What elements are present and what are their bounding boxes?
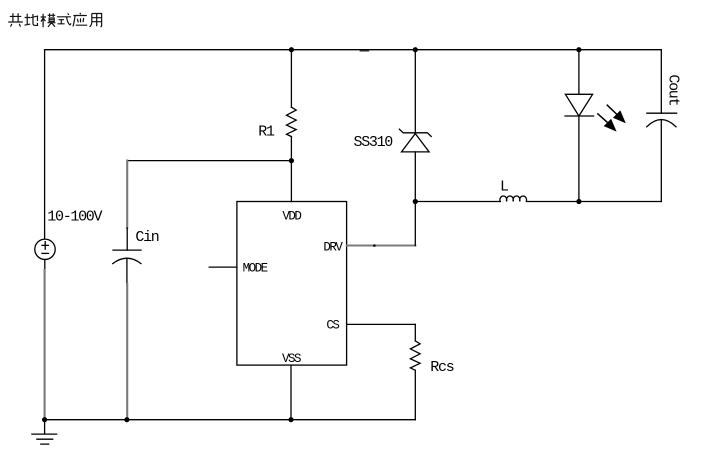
wire left rail lower (gray)	[44, 270, 46, 420]
node switch	[413, 199, 418, 204]
arrowhead 1	[613, 110, 626, 123]
voltage source bottom pin	[44, 260, 46, 270]
node ground left	[42, 417, 47, 422]
svg-text:MODE: MODE	[243, 261, 268, 275]
node LED top	[576, 47, 581, 52]
wire LED branch top	[578, 50, 580, 95]
node R1 top	[289, 47, 294, 52]
wire SS310 branch top	[414, 50, 416, 133]
svg-text:10-100V: 10-100V	[47, 209, 102, 226]
voltage source V1 circle	[35, 239, 55, 259]
wire Rcs to bottom rail	[414, 370, 416, 419]
voltage source plus sign	[42, 242, 48, 250]
capacitor Cin curved plate	[113, 258, 141, 263]
wire LED branch bottom	[578, 116, 580, 202]
LED light arrow 1	[607, 105, 616, 114]
应	[73, 13, 87, 27]
svg-text:VSS: VSS	[282, 352, 301, 366]
MODE pin stub	[209, 266, 237, 268]
LED D1 cathode bar	[565, 115, 594, 117]
LED D1 triangle	[565, 94, 592, 116]
LED arrowheads	[604, 110, 626, 131]
wire junction to Cin branch	[127, 160, 291, 162]
svg-text:VDD: VDD	[282, 209, 301, 223]
wire Cout branch top	[660, 50, 662, 113]
capacitor Cin top plate	[113, 249, 141, 251]
式	[57, 14, 71, 26]
svg-text:Cin: Cin	[135, 229, 158, 246]
node VSS bottom	[288, 417, 293, 422]
共	[8, 13, 23, 27]
diode SS310 triangle	[402, 134, 430, 152]
diode SS310 schottky bar	[399, 129, 431, 136]
voltage source minus sign	[42, 252, 48, 254]
node LED bottom	[576, 199, 581, 204]
svg-text:DRV: DRV	[323, 241, 343, 255]
resistor Rcs	[410, 341, 420, 370]
wire mid rail left	[415, 201, 500, 203]
VSS pin wire	[290, 365, 292, 420]
title 共地模式应用	[8, 13, 101, 27]
用	[90, 14, 102, 27]
wire Cin branch lower (gray)	[126, 284, 128, 420]
node SS310 top	[413, 47, 418, 52]
inductor L	[500, 196, 527, 201]
IC U1 box	[237, 202, 347, 366]
模	[41, 13, 56, 27]
wire R1 branch top	[290, 50, 292, 107]
wire CS to Rcs	[414, 324, 416, 341]
node R1 bottom	[289, 158, 294, 163]
wire overlap mark	[360, 50, 368, 52]
wire SS310 to switch node	[414, 152, 416, 202]
svg-text:L: L	[500, 179, 509, 196]
svg-text:Cout: Cout	[664, 74, 681, 105]
wire bottom rail	[45, 419, 416, 421]
capacitor Cout top plate	[647, 112, 677, 114]
capacitor Cin bottom pin	[126, 258, 128, 283]
capacitor Cin top pin	[126, 228, 128, 250]
wire Cout branch bottom	[660, 120, 662, 201]
resistor R1	[287, 107, 297, 136]
wire top rail	[45, 49, 662, 51]
capacitor Cout curved plate	[647, 120, 676, 127]
wire mid rail right	[527, 201, 662, 203]
svg-text:SS310: SS310	[354, 134, 394, 151]
arrowhead 2	[604, 119, 617, 132]
地	[25, 14, 38, 26]
svg-text:Rcs: Rcs	[430, 359, 453, 376]
ground	[32, 420, 57, 444]
wire R1 bottom to VDD	[290, 137, 292, 202]
node DRV small	[373, 244, 376, 247]
wire switch node down to DRV	[414, 202, 416, 246]
CS pin wire	[347, 323, 416, 325]
svg-text:CS: CS	[326, 318, 339, 332]
LED light arrow 2	[598, 114, 608, 123]
wire left rail upper	[44, 50, 46, 239]
svg-text:R1: R1	[258, 124, 275, 141]
wire Cin branch upper (gray)	[126, 161, 128, 228]
DRV pin wire (gray)	[347, 244, 415, 246]
node Cin bottom	[124, 417, 129, 422]
